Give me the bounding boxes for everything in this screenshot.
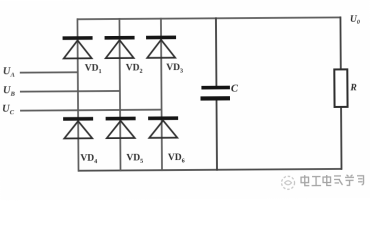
wire: phase C input (20, 109, 161, 112)
diode VD2 (105, 36, 135, 58)
wire: branch 1 vertical (VD1/VD4 leg) (77, 18, 78, 171)
wire: branch 2 vertical (VD2/VD5 leg) (119, 18, 120, 171)
svg-text:R: R (349, 83, 356, 93)
wire: capacitor branch lower (216, 100, 218, 170)
工 (312, 177, 322, 186)
diode VD6 (148, 116, 178, 138)
diode VD4 (63, 117, 93, 139)
习 (357, 176, 364, 185)
diode VD3 (146, 36, 176, 58)
电 (301, 175, 309, 186)
wire: branch 3 vertical (VD3/VD6 leg) (161, 18, 162, 171)
wire: top positive rail (77, 17, 341, 19)
watermark logo circle (282, 176, 295, 189)
电 (323, 175, 331, 186)
wire: bottom negative rail (78, 169, 342, 171)
wire: resistor branch lower (340, 106, 342, 169)
diode VD5 (106, 117, 136, 139)
watermark text 电工电气学习 (approximated glyph strokes) (301, 175, 364, 186)
diode VD1 (63, 36, 93, 58)
wire: phase A input (20, 71, 78, 73)
capacitor C plates (200, 86, 230, 101)
wire: phase B input (20, 90, 120, 93)
学 (345, 175, 354, 186)
气 (334, 176, 343, 185)
svg-text:C: C (231, 84, 239, 95)
wire: capacitor branch upper (215, 17, 217, 85)
wire: resistor branch upper (339, 17, 341, 70)
resistor R body (334, 69, 347, 107)
